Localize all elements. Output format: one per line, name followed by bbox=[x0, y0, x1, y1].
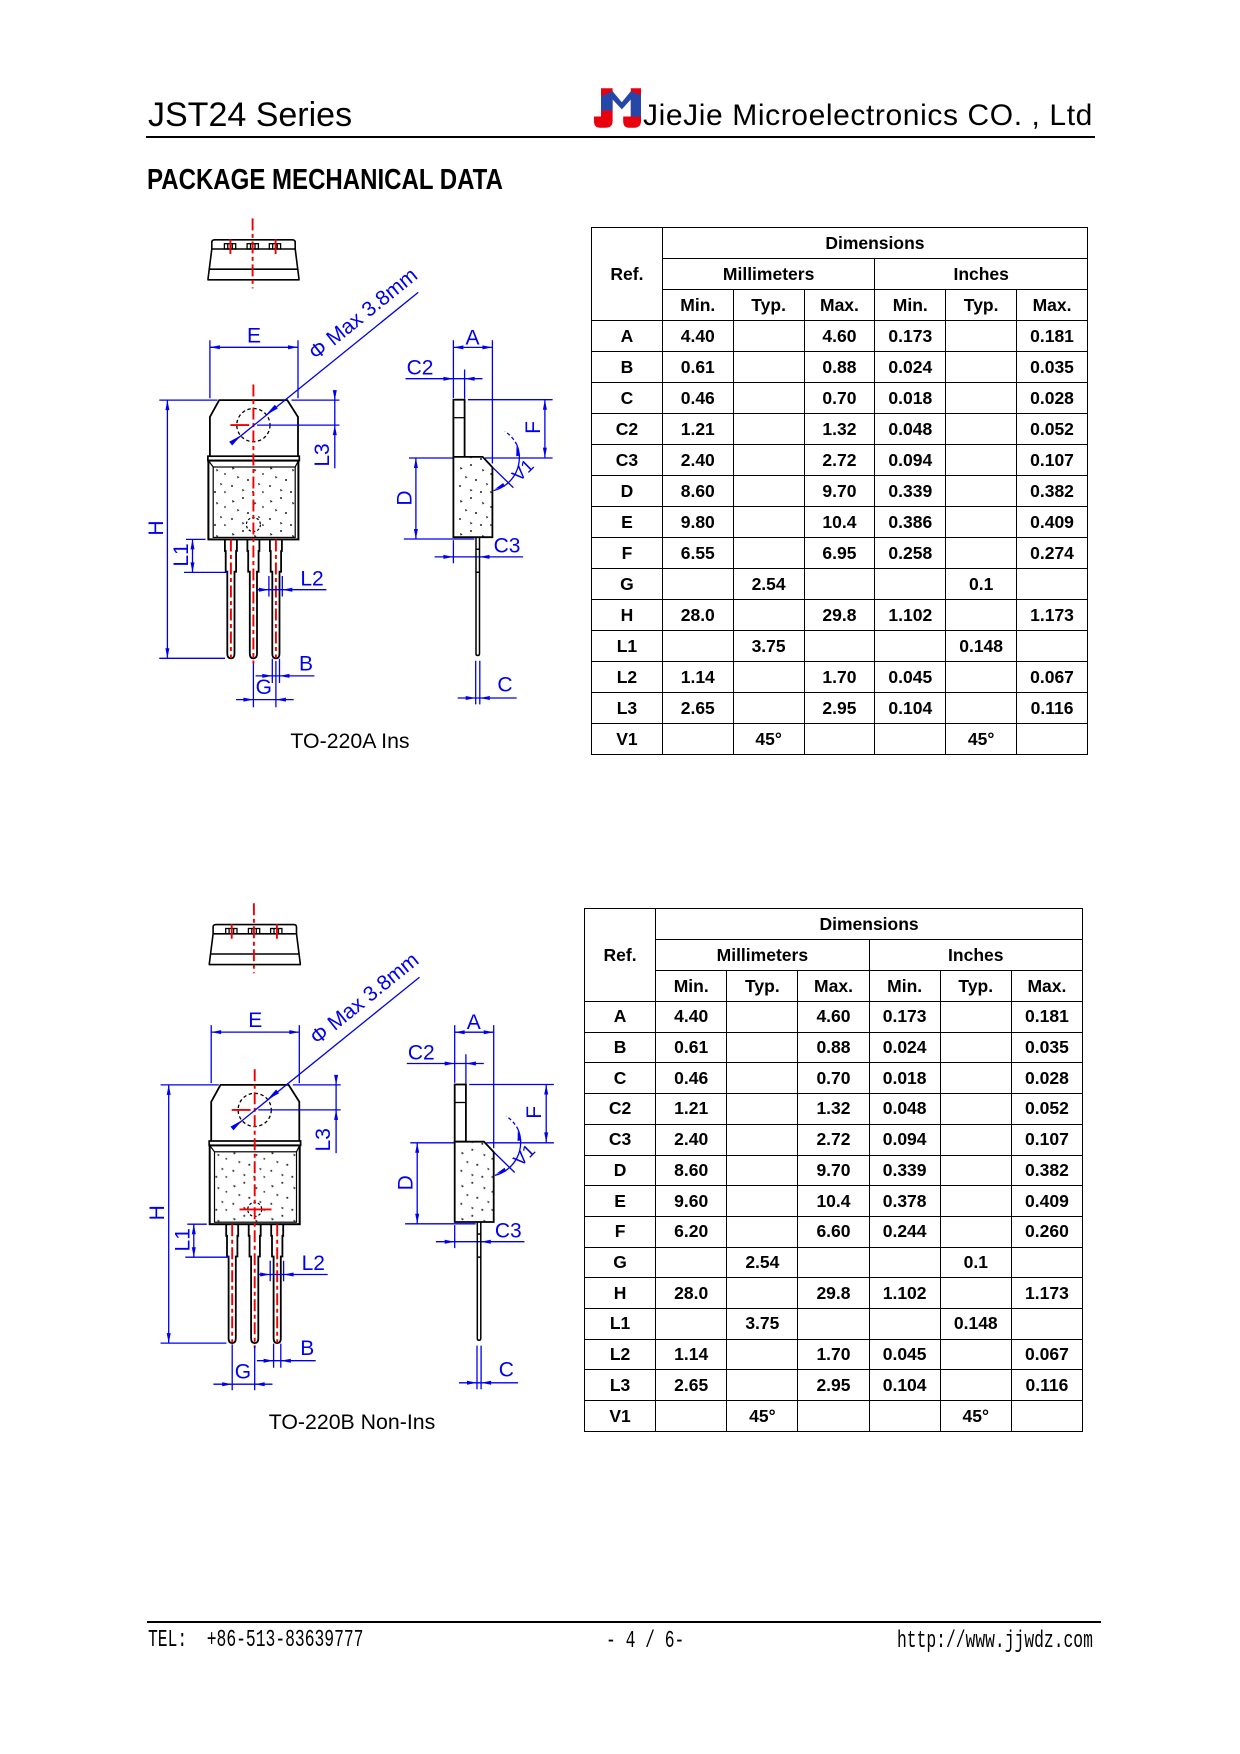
drawing TO-220B bbox=[146, 903, 554, 1389]
svg-text:G: G bbox=[256, 676, 272, 699]
header rule bbox=[146, 136, 1095, 138]
footer rule bbox=[147, 1621, 1101, 1623]
logo J red 1 bbox=[594, 88, 613, 128]
small hole crosshair TO-220B bbox=[240, 1208, 272, 1210]
footer right url bbox=[897, 1630, 1093, 1654]
section title bbox=[147, 166, 503, 195]
company name bbox=[643, 101, 1093, 131]
caption TO-220A bbox=[250, 731, 450, 752]
svg-text:G: G bbox=[235, 1361, 251, 1384]
caption TO-220B bbox=[252, 1412, 452, 1433]
header title left bbox=[148, 98, 352, 132]
logo J red 2 bbox=[623, 88, 641, 128]
logo M blue bbox=[601, 91, 641, 116]
drawing TO-220A bbox=[145, 218, 553, 704]
footer left TEL bbox=[148, 1629, 363, 1653]
footer center page bbox=[606, 1630, 684, 1654]
dim G drawing 1 bbox=[236, 661, 294, 707]
dimensions table TO-220B bbox=[584, 908, 1083, 1432]
dimensions table TO-220A bbox=[591, 227, 1088, 755]
dim G drawing 2 bbox=[213, 1344, 272, 1390]
